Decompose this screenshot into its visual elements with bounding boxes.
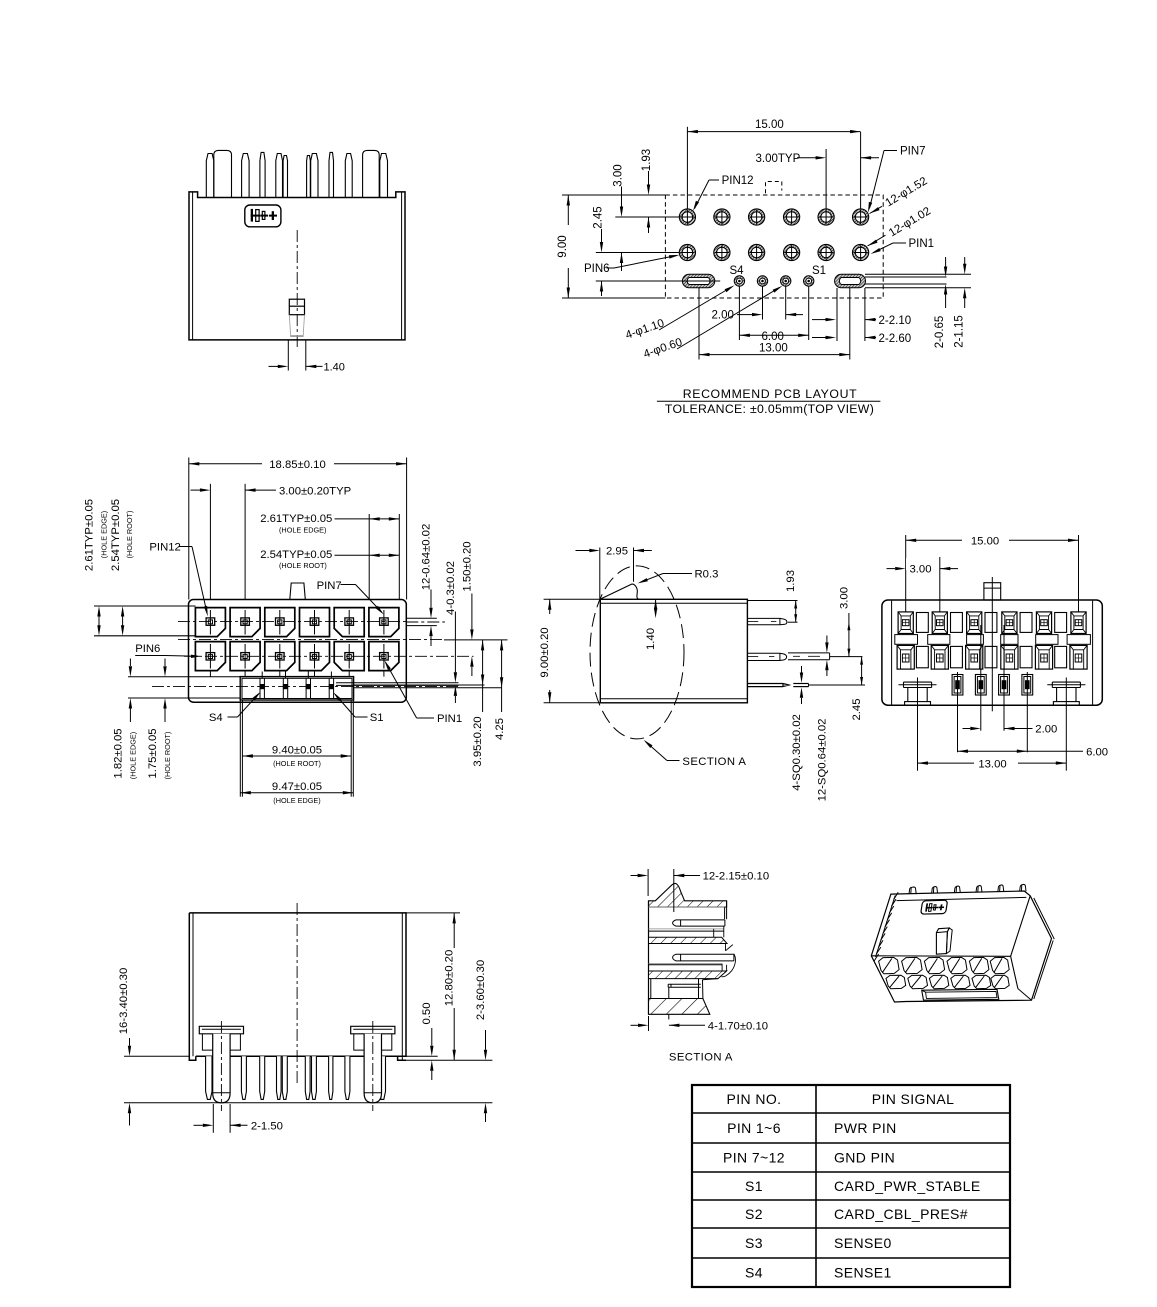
rear vent slot col5 [1036, 635, 1058, 645]
iso body outline [871, 891, 1051, 1002]
svg-text:12-SQ0.64±0.02: 12-SQ0.64±0.02 [816, 719, 828, 802]
rear view top tab [984, 583, 1001, 600]
plated hole bottom row col5 [818, 244, 834, 260]
svg-text:(HOLE ROOT): (HOLE ROOT) [279, 561, 327, 570]
pin table row line 6 [692, 1257, 1010, 1259]
pin tail 10 (top view) [380, 154, 388, 198]
rear cavity row1 col6 [1071, 612, 1086, 634]
left dim arrows 2.61/2.54 [97, 606, 100, 617]
svg-text:1.93: 1.93 [785, 570, 797, 592]
cavity row1 col3 [265, 608, 295, 637]
plated hole PIN12 row (top row) col1 [679, 209, 695, 225]
pin contact row2 col1 [206, 653, 215, 660]
svg-text:1.93: 1.93 [641, 149, 653, 171]
rear window row2 col1 [916, 646, 928, 667]
svg-text:3.00: 3.00 [910, 564, 932, 576]
svg-text:PIN7: PIN7 [900, 146, 926, 158]
iso cavity row2 col4 [951, 975, 970, 989]
pin contact row1 col1 [206, 618, 215, 625]
dimension 9.00 (pattern height) [562, 194, 665, 196]
iso cavity row2 col3 [929, 975, 948, 989]
bottom view housing body [189, 913, 406, 1060]
rear window row1 col3 [985, 613, 997, 633]
svg-text:2-1.50: 2-1.50 [251, 1121, 283, 1133]
pin contact row2 col2 [241, 653, 250, 660]
cavity 6 extension lines [368, 514, 370, 600]
iso cavity row2 col1 [886, 975, 906, 989]
pin tail 6 (top view) [307, 156, 311, 198]
rear right mounting post [1052, 681, 1080, 683]
svg-text:S4: S4 [209, 712, 223, 724]
dimension 13.00 rear [918, 762, 1067, 764]
svg-text:SENSE0: SENSE0 [834, 1235, 892, 1251]
svg-text:(HOLE ROOT): (HOLE ROOT) [125, 511, 134, 559]
dimension 1.93 side view [795, 601, 797, 623]
logo badge on housing [245, 205, 281, 227]
rear view tab centre line [991, 577, 993, 672]
dimension 1.40 side view [655, 599, 657, 608]
signal pin strip outer [240, 677, 353, 700]
rear window row1 col2 [951, 613, 963, 633]
svg-text:4-1.70±0.10: 4-1.70±0.10 [708, 1021, 768, 1033]
svg-text:(HOLE EDGE): (HOLE EDGE) [129, 732, 138, 779]
rear signal cavity S1 [1022, 675, 1033, 696]
dimension 9.47 hole edge [240, 792, 353, 794]
section A signal pin [668, 984, 701, 987]
svg-text:PIN6: PIN6 [584, 263, 610, 275]
section A left wall [648, 901, 650, 1015]
svg-text:PIN 1~6: PIN 1~6 [727, 1120, 781, 1136]
svg-text:4-SQ0.30±0.02: 4-SQ0.30±0.02 [791, 714, 803, 791]
svg-text:2.95: 2.95 [606, 546, 628, 558]
svg-text:3.00: 3.00 [838, 587, 850, 609]
plated hole bottom row col1 [679, 244, 695, 260]
bottom pin tail 6 [305, 1056, 310, 1099]
cavity row2 col6 [369, 642, 399, 671]
rear view inner side wall lines [891, 601, 893, 705]
rear cavity row1 col2 [932, 612, 947, 634]
slot length extension lines [836, 288, 838, 341]
cavity row2 col2 [230, 642, 260, 671]
plated hole top row col2 [714, 209, 730, 225]
bottom pin tail 7 [312, 1056, 317, 1099]
cavity row2 col5 [334, 642, 364, 671]
dimension 12-SQ0.64 side view [826, 636, 828, 643]
dimension 12.80 body height [453, 913, 455, 948]
plated hole bottom row col6 [853, 244, 869, 260]
section A outer lower right edge [703, 979, 719, 999]
row1 pin edge lines extended right [406, 617, 437, 619]
rear view body outline [882, 600, 1102, 705]
iso right-bottom edge inner line [1034, 941, 1053, 1000]
svg-text:15.00: 15.00 [755, 119, 784, 131]
iso pin tail 6 [1020, 884, 1026, 891]
side view pin row2 far part [788, 652, 830, 654]
left retention peg [199, 1026, 243, 1034]
plated hole top row col5 [818, 209, 834, 225]
dimension 15.00 (hole span) [686, 127, 688, 209]
svg-text:S1: S1 [812, 265, 826, 277]
dimension 3.00 rear [939, 557, 941, 612]
section A signal cavity walls [651, 979, 699, 999]
rear window row2 col3 [985, 646, 997, 667]
right retention peg [351, 1026, 395, 1034]
retention peg blade right (top view) [363, 150, 380, 197]
svg-text:2-1.15: 2-1.15 [953, 315, 965, 348]
rear vent slot col4 [1001, 635, 1018, 645]
pin table frame [692, 1085, 1010, 1287]
svg-text:3.00±0.20TYP: 3.00±0.20TYP [279, 486, 351, 498]
rear left mounting post [904, 681, 932, 683]
bottom pin tail 10 [379, 1056, 385, 1099]
pin contact row2 col4 [310, 653, 319, 660]
cavity row1 col1 [195, 608, 225, 637]
iso pin tail 1 [909, 887, 916, 894]
svg-text:13.00: 13.00 [759, 343, 788, 355]
body bottom edge extended right [406, 1055, 438, 1057]
pin table row line 3 [692, 1171, 1010, 1173]
svg-text:1.82±0.05: 1.82±0.05 [113, 728, 125, 778]
signal pin edge reference lines [336, 682, 459, 684]
signal pin S3 in strip [282, 678, 284, 698]
svg-text:S3: S3 [745, 1235, 763, 1251]
svg-text:18.85±0.10: 18.85±0.10 [269, 459, 325, 471]
cavity row1 col6 [369, 608, 399, 637]
svg-text:PIN NO.: PIN NO. [727, 1091, 782, 1107]
pin table row line 1 [692, 1112, 1010, 1114]
rear window row2 col5 [1055, 646, 1067, 667]
svg-text:4-0.3±0.02: 4-0.3±0.02 [445, 561, 457, 615]
dimension 9.00 side view [544, 598, 601, 600]
svg-text:13.00: 13.00 [978, 758, 1006, 770]
svg-text:(HOLE EDGE): (HOLE EDGE) [100, 511, 109, 558]
section A lower hatched band [649, 971, 727, 979]
iso cavity row1 col2 [902, 957, 923, 973]
section A hatched top band [649, 883, 727, 907]
pin contact row1 col5 [345, 618, 354, 625]
side view signal pin [747, 684, 789, 687]
svg-text:GND PIN: GND PIN [834, 1150, 895, 1166]
svg-text:CARD_CBL_PRES#: CARD_CBL_PRES# [834, 1206, 968, 1222]
svg-text:1.50±0.20: 1.50±0.20 [461, 541, 473, 591]
svg-text:S4: S4 [745, 1265, 763, 1281]
section A row1 cavity ceiling line [649, 906, 725, 908]
cavity row1 col5 [334, 608, 364, 637]
rear cavity row1 col5 [1036, 612, 1051, 634]
side view pin row2 near part [747, 653, 786, 660]
pin table row line 2 [692, 1142, 1010, 1144]
dimension 1.75 hole root [163, 666, 166, 677]
dimension 4-1.70 section [648, 1016, 650, 1031]
signal pin strip inner [242, 678, 352, 698]
plated hole bottom row col3 [749, 244, 765, 260]
rear cavity row2 col2 [931, 645, 948, 669]
signal pin S4 in strip [259, 678, 261, 698]
iso cavity row2 col5 [972, 975, 991, 989]
mid centre line between rows [178, 638, 444, 640]
pin tail 1 (top view) [206, 154, 214, 198]
svg-text:3.95±0.20: 3.95±0.20 [472, 716, 484, 766]
svg-text:2.45: 2.45 [851, 699, 863, 721]
dimension 4.25 (rotated) [501, 640, 503, 688]
section A row1 window right [714, 926, 724, 937]
mounting boss at bottom of housing [289, 299, 304, 315]
dimension 2.45 side view [861, 657, 863, 685]
svg-text:16-3.40±0.30: 16-3.40±0.30 [118, 968, 130, 1035]
signal hole S1 [804, 276, 814, 286]
svg-text:(HOLE ROOT): (HOLE ROOT) [273, 759, 321, 768]
svg-text:15.00: 15.00 [971, 536, 999, 548]
svg-text:PIN 7~12: PIN 7~12 [723, 1150, 785, 1166]
cavity row2 col3 [265, 642, 295, 671]
svg-text:1.40: 1.40 [324, 362, 345, 374]
svg-text:PIN7: PIN7 [317, 580, 342, 592]
rear cavity row2 col1 [897, 645, 914, 669]
pin contact row2 col5 [345, 653, 354, 660]
svg-text:2.45: 2.45 [593, 206, 605, 228]
svg-text:12.80±0.20: 12.80±0.20 [444, 950, 456, 1006]
svg-text:PIN12: PIN12 [149, 542, 180, 554]
svg-text:SECTION A: SECTION A [682, 756, 746, 768]
rear cavity row2 col5 [1035, 645, 1052, 669]
dimension 6.00 rear [958, 750, 1028, 752]
pin contact row2 col6 [380, 653, 389, 660]
rear signal cavity S2 [999, 675, 1010, 696]
dimension 2-1.50 peg width [212, 1104, 214, 1133]
row reference line signal row [596, 280, 677, 282]
svg-text:2.54TYP±0.05: 2.54TYP±0.05 [260, 549, 332, 561]
rear cavity row2 col3 [966, 645, 983, 669]
section A row2 window right [722, 964, 727, 971]
signal hole S2 [781, 276, 791, 286]
dimension 13.00 [699, 354, 850, 356]
dimension 2.00 rear [970, 727, 981, 730]
svg-text:6.00: 6.00 [1086, 746, 1108, 758]
dimension 9.40 hole root [241, 700, 243, 797]
cavity row1 col2 [230, 608, 260, 637]
svg-text:S4: S4 [730, 265, 745, 277]
row reference line top row [615, 216, 679, 218]
side view TPA wedge with R0.3 [600, 584, 640, 599]
svg-text:1.40: 1.40 [645, 628, 657, 650]
section A right concave notch [722, 954, 736, 977]
dimension 1.82 hole edge [129, 666, 132, 677]
centre line of side elevation [296, 230, 298, 347]
svg-text:2.61TYP±0.05: 2.61TYP±0.05 [84, 499, 96, 571]
rear cavity row2 col4 [1001, 645, 1018, 669]
svg-text:CARD_PWR_STABLE: CARD_PWR_STABLE [834, 1178, 981, 1194]
body top edge extended right [406, 912, 460, 914]
svg-text:9.40±0.05: 9.40±0.05 [272, 745, 322, 757]
rear cavity row2 col6 [1070, 645, 1087, 669]
slotted hole left [682, 274, 714, 287]
signal hole S4 [734, 276, 744, 286]
cavity row2 col1 [195, 642, 225, 671]
rear signal extension lines [957, 672, 959, 752]
iso left chamfer band with ticks [876, 896, 896, 958]
side view inner top/bottom wall lines [600, 602, 747, 604]
signal hole extension lines [738, 287, 740, 341]
svg-text:PIN6: PIN6 [135, 643, 160, 655]
pin tail 5 (top view) [283, 156, 287, 198]
side view pin row2 centre line extended [830, 656, 863, 658]
bottom view centre line [296, 903, 298, 1085]
svg-text:R0.3: R0.3 [695, 569, 719, 581]
svg-text:PIN SIGNAL: PIN SIGNAL [872, 1091, 955, 1107]
rear vent slot col6 [1067, 635, 1090, 645]
svg-text:S2: S2 [745, 1206, 763, 1222]
svg-text:2.54TYP±0.05: 2.54TYP±0.05 [110, 499, 122, 571]
dimension 18.85 overall width [188, 458, 190, 600]
plated hole bottom row col4 [784, 244, 800, 260]
iso pin tail 2 [932, 887, 938, 894]
svg-text:PIN12: PIN12 [722, 175, 754, 187]
cavity row2 col4 [300, 642, 330, 671]
svg-text:12-0.64±0.02: 12-0.64±0.02 [421, 524, 433, 591]
svg-text:(HOLE EDGE): (HOLE EDGE) [279, 525, 326, 534]
svg-text:SENSE1: SENSE1 [834, 1265, 892, 1281]
section A signal pin centre line [668, 987, 670, 1019]
iso cavity row1 col4 [947, 957, 967, 973]
front view TPA tab on top [290, 583, 306, 600]
rear signal cavity S4 [952, 675, 963, 696]
iso right-top edge inner line [1034, 898, 1055, 939]
bottom pin tail 3 [260, 1056, 265, 1099]
rear cavity row1 col3 [967, 612, 982, 634]
pin tail 3 (top view) [260, 152, 265, 197]
svg-text:3.00TYP: 3.00TYP [756, 153, 801, 165]
section A pin row1 [673, 920, 725, 926]
side view body top edge extended right [747, 600, 797, 602]
view: side elevation with pins up - housing body [189, 192, 405, 340]
section A mid hatched band [649, 937, 728, 943]
side view signal pin centre line extended [809, 684, 865, 686]
section A row2 cavity floor lines [649, 963, 723, 965]
iso pin tail 3 [954, 886, 960, 893]
pin contact row1 col3 [276, 618, 285, 625]
signal pin S2 in strip [305, 678, 307, 698]
section A row1 cavity floor lines [649, 928, 724, 930]
iso logo badge [921, 900, 948, 914]
section cutting ellipse (dashed) [590, 566, 684, 739]
iso pin tail 5 [998, 885, 1004, 892]
iso cavity row1 col5 [969, 957, 989, 973]
svg-text:SECTION A: SECTION A [669, 1051, 733, 1063]
row reference line bottom row [596, 252, 680, 254]
svg-text:(HOLE EDGE): (HOLE EDGE) [273, 796, 320, 805]
section A mid band right details [726, 944, 733, 951]
row1 centre line [178, 621, 406, 623]
dimension 2.95 [599, 548, 601, 600]
dimension 3.95 (rotated) [482, 640, 484, 685]
svg-text:9.00±0.20: 9.00±0.20 [539, 627, 551, 677]
signal pin S1 in strip [328, 678, 330, 698]
PCB layout polarity bracket mark [766, 182, 782, 194]
pin tail 9 (top view) [345, 154, 352, 198]
dimension 1.40 boss width [287, 340, 289, 371]
pin table row line 5 [692, 1227, 1010, 1229]
pin contact row1 col2 [241, 618, 250, 625]
bottom pin tail 1 [206, 1056, 212, 1099]
dimension 0.50 standoff [431, 1028, 433, 1046]
label 4-dia0.60 with leader [642, 336, 684, 360]
dimension 3.00TYP cavity pitch [209, 484, 211, 600]
dimension 3.00 side view [848, 613, 850, 657]
svg-text:0.50: 0.50 [421, 1003, 433, 1025]
bottom pin tail 2 [241, 1056, 246, 1099]
front view housing body [189, 600, 407, 703]
pin tail 7 (top view) [311, 154, 318, 198]
iso cavity row1 col1 [879, 957, 900, 973]
iso cavity row2 col6 [991, 975, 1009, 989]
cavity row1 col4 [300, 608, 330, 637]
dimension 6.00 [739, 334, 808, 336]
bottom pin tail 5 [282, 1056, 287, 1099]
plated hole top row col6 [853, 209, 869, 225]
iso cavity row1 col3 [924, 957, 944, 973]
iso top rim inner line [897, 897, 1027, 900]
pin contact row1 col6 [380, 618, 389, 625]
retention peg blade left (top view) [214, 150, 232, 197]
rear window row1 col1 [916, 613, 928, 633]
dimension 2-2.60 [826, 336, 837, 339]
svg-text:3.00: 3.00 [613, 164, 625, 186]
dimension 3.00TYP (hole pitch) [825, 149, 827, 209]
svg-text:12-2.15±0.10: 12-2.15±0.10 [703, 871, 770, 883]
iso front face right edge [1011, 956, 1018, 988]
plated hole bottom row col2 [714, 244, 730, 260]
dimension 2-1.15 [964, 257, 966, 264]
pin tail 4 (top view) [276, 154, 283, 198]
side view pin row1 [747, 618, 786, 624]
rear cavity row1 col4 [1002, 612, 1017, 634]
standoff step extended right [406, 1059, 492, 1061]
bottom pin tail 4 [277, 1056, 282, 1099]
svg-text:9.00: 9.00 [557, 235, 569, 257]
slotted hole right [835, 274, 866, 287]
svg-text:RECOMMEND PCB LAYOUT: RECOMMEND PCB LAYOUT [683, 387, 857, 401]
bottom pin tail 8 [329, 1056, 333, 1099]
label 12-dia1.02 with leader [887, 205, 933, 239]
signal hole S3 [757, 276, 767, 286]
iso cavity row1 col6 [990, 957, 1009, 973]
iso top-right face divider [1011, 896, 1031, 957]
dimension 15.00 rear [905, 535, 907, 612]
pin tail 8 (top view) [329, 152, 334, 197]
dimension 12-2.15 section [647, 869, 649, 896]
svg-text:PIN1: PIN1 [437, 713, 462, 725]
rear window row1 col5 [1055, 613, 1067, 633]
side elevation inner wall lines [192, 192, 194, 340]
svg-text:1.75±0.05: 1.75±0.05 [147, 728, 159, 778]
plated hole top row col3 [749, 209, 765, 225]
dimension 2-2.10 [826, 318, 837, 321]
svg-text:2-0.65: 2-0.65 [934, 316, 946, 349]
iso signal slot [922, 989, 999, 1000]
iso pin tail 4 [976, 886, 982, 893]
pin table row line 4 [692, 1199, 1010, 1201]
rear signal cavity S3 [975, 675, 986, 696]
label 4-dia1.10 with leader [624, 317, 666, 341]
rear window row2 col2 [951, 646, 963, 667]
row2 centre line [184, 655, 474, 657]
label 12-dia1.52 with leader [883, 175, 929, 209]
dimension 2-0.65 [945, 257, 947, 267]
iso cavity row2 col2 [908, 975, 928, 989]
svg-text:PIN1: PIN1 [909, 238, 935, 250]
iso centre latch block [936, 928, 949, 954]
pin tail 2 (top view) [242, 154, 250, 198]
